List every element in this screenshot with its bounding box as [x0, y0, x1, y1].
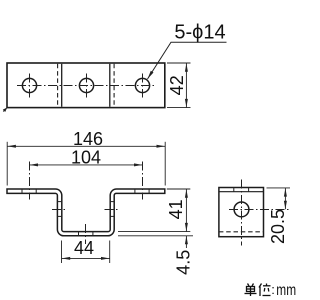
svg-text:44: 44: [74, 238, 94, 258]
dimension 20.5 line: [284, 188, 287, 209]
dimension 146 text: [73, 129, 103, 149]
unit note: kanji TAN (単): [245, 284, 257, 297]
dimension 44 line: [62, 257, 110, 260]
corner arrow (top view lower-left): [3, 108, 7, 113]
hole 2 (top view): [79, 78, 93, 92]
side view web hole: [234, 202, 249, 217]
dimension 146 extension lines: [7, 142, 165, 186]
side view hole edge ticks top: [234, 188, 249, 192]
svg-text:20.5: 20.5: [268, 209, 288, 244]
centerline web hole right (front view): [105, 209, 121, 211]
side view hole vertical centerline: [241, 180, 243, 246]
unit note: mm: [276, 282, 296, 299]
front view outline: [7, 189, 165, 236]
hole 3 vertical centerline: [142, 74, 144, 98]
bend edge line left (top view): [61, 64, 63, 107]
centerline left flange hole (front view, also 104 extension): [29, 162, 31, 200]
side view flange underside line: [219, 191, 264, 193]
hole 1 vertical centerline: [29, 74, 31, 98]
dimension 42 line: [185, 63, 188, 107]
dimension 104 text: [71, 147, 101, 167]
dimension 4.5 arrow and tail: [185, 236, 188, 248]
svg-text:4.5: 4.5: [173, 250, 193, 275]
flange hole edges right (front view): [135, 189, 149, 193]
centerline bottom hole (front view): [85, 224, 87, 244]
bend hidden line right (top view): [113, 64, 115, 107]
hole 1 (top view): [22, 78, 36, 92]
centerline right flange hole (front view, also 104 extension): [142, 162, 144, 200]
label 5-phi14: [174, 21, 225, 43]
dimension 41 line: [185, 189, 188, 231]
unit note: kanji I (位): [259, 284, 271, 297]
svg-text:mm: mm: [276, 282, 296, 299]
svg-text:104: 104: [71, 147, 101, 167]
dimension 20.5 text: [268, 209, 288, 244]
side view hole horizontal centerline (also 20.5 extension): [229, 209, 290, 211]
dimension 20.5 extension line: [267, 187, 291, 189]
dimension 146 line: [7, 145, 165, 148]
centerline web hole left (front view): [52, 209, 68, 211]
svg-text::: :: [271, 282, 275, 297]
svg-text:42: 42: [167, 75, 187, 95]
svg-text:146: 146: [73, 129, 103, 149]
web hole edges left (front view): [57, 202, 61, 217]
dimension 44 text: [74, 238, 94, 258]
bend edge line right (top view): [109, 64, 111, 107]
unit note: colon: [271, 282, 275, 297]
dimension 104 line: [30, 163, 143, 166]
dimension 42 extension lines: [167, 63, 191, 108]
flange hole edges left (front view): [22, 189, 36, 193]
horizontal centerline (top view): [17, 85, 154, 87]
svg-text:41: 41: [166, 199, 186, 219]
bend hidden line left (top view): [57, 64, 59, 107]
dimension 41 text: [166, 199, 186, 219]
bottom hole edges (front view): [79, 232, 93, 236]
web hole edges right (front view): [110, 202, 114, 217]
top view outline: [7, 63, 165, 108]
side view outline: [219, 188, 264, 237]
side view bottom hidden line: [219, 231, 264, 233]
dimension 44 extension lines: [62, 241, 110, 264]
svg-text:5-ϕ14: 5-ϕ14: [174, 21, 225, 43]
hole 2 vertical centerline: [86, 74, 88, 98]
dimension 4.5 text: [173, 250, 193, 275]
hole 3 (top view): [135, 78, 149, 92]
dimension 41 extension lines: [118, 189, 193, 236]
dimension 42 text: [167, 75, 187, 95]
leader line 5-phi14: [148, 42, 227, 79]
